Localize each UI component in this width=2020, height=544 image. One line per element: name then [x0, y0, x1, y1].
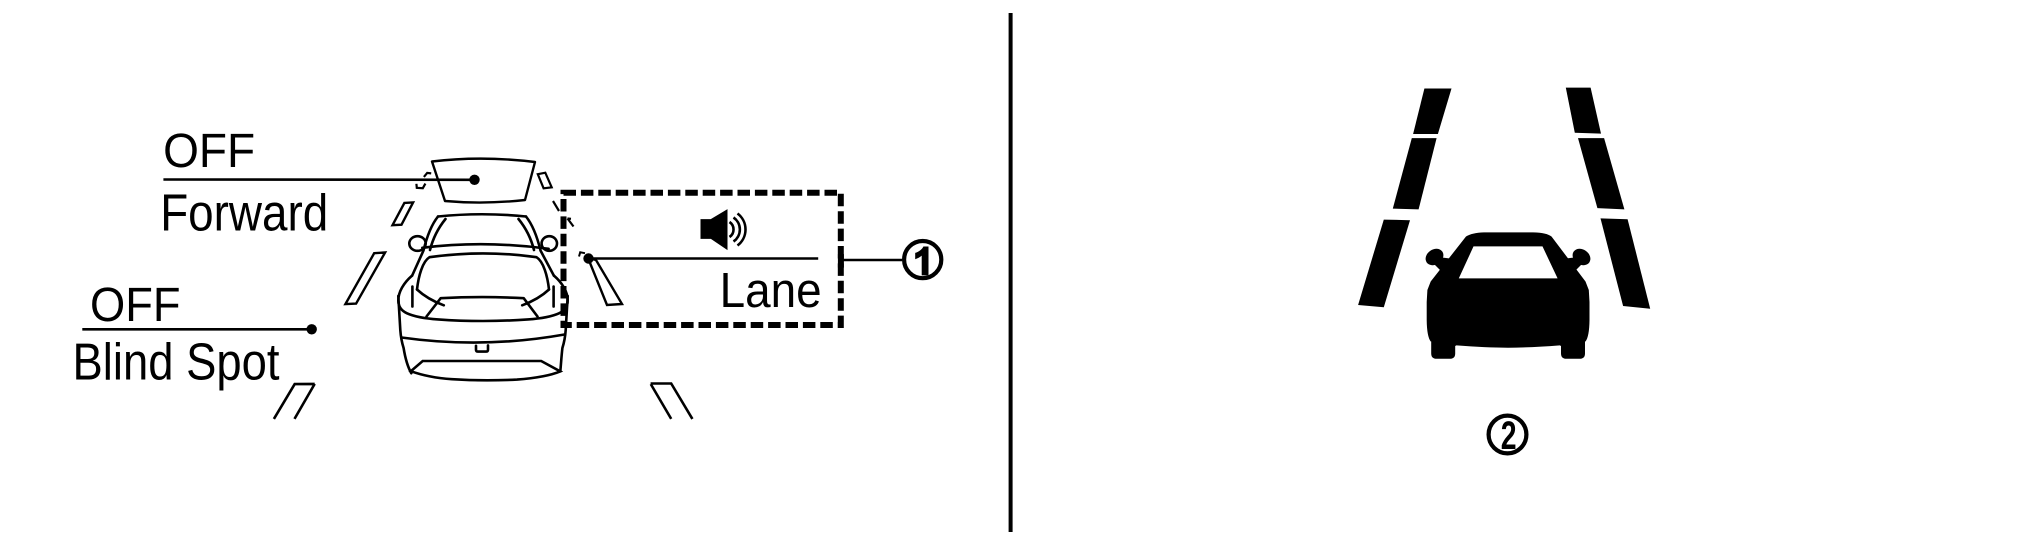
leader line to car side — [82, 328, 311, 331]
right headlight vertical tick — [552, 287, 555, 307]
leader line outside box to circle 1 — [842, 259, 902, 262]
dashed callout box — [564, 193, 841, 325]
lane marker inside box — [588, 258, 622, 305]
svg-text:OFF: OFF — [163, 125, 255, 178]
right panel: left lane dash 3 — [1358, 220, 1410, 308]
right body side — [560, 296, 567, 371]
svg-text:Lane: Lane — [720, 264, 822, 318]
leader line inside box — [589, 257, 819, 260]
speaker icon — [701, 210, 746, 249]
right headlight edge — [522, 290, 549, 306]
right panel: left lane dash 2 — [1393, 138, 1437, 209]
left headlight edge — [417, 290, 444, 306]
marker dot — [583, 253, 593, 263]
small tick lower-left of windshield panel — [416, 184, 425, 189]
car icon silhouette — [1422, 232, 1593, 358]
divider line — [1009, 13, 1013, 532]
license plate notch — [476, 345, 488, 351]
svg-text:OFF: OFF — [90, 279, 181, 332]
left A-pillar outer — [412, 217, 438, 276]
windshield glass bottom arc — [422, 244, 548, 249]
callout circle 2 — [1489, 416, 1527, 454]
callout circle 1 — [904, 241, 941, 278]
car icon right mirror — [1569, 245, 1593, 268]
lane mark L1 (upper left of car) — [393, 202, 414, 225]
lane mark L2 (mid left of car) — [345, 253, 385, 305]
mid body crease — [402, 335, 565, 343]
leader dot at car side — [307, 324, 317, 334]
cowl / hood arc with side descents — [417, 253, 549, 289]
left headlight vertical tick — [411, 287, 414, 307]
right panel: right lane dash 3 — [1601, 218, 1651, 308]
leader dot on windshield display — [469, 175, 479, 185]
speaker sound arcs — [730, 214, 746, 246]
lane mark L3 (bottom left) — [274, 384, 315, 419]
dash patch where leader crosses box border — [838, 254, 844, 268]
grille opening — [427, 297, 538, 316]
right A-pillar inner — [519, 219, 535, 250]
svg-text:Forward: Forward — [160, 185, 328, 243]
car line drawing — [398, 214, 567, 380]
tick near box left edge lower — [568, 219, 574, 227]
right panel: right lane dash 2 — [1578, 138, 1624, 209]
lower intake and bumper bottom — [411, 361, 560, 380]
roof top edge — [438, 214, 526, 216]
leader line to windshield display — [163, 178, 474, 181]
lane mark R3 (bottom right) — [651, 384, 693, 419]
right panel: left lane dash 1 — [1413, 89, 1451, 135]
tick near box left edge upper — [553, 201, 559, 211]
small tick upper-left of windshield panel — [424, 173, 431, 177]
left A-pillar inner — [430, 219, 446, 250]
right mirror — [542, 236, 557, 251]
svg-text:Blind Spot: Blind Spot — [73, 333, 280, 391]
left body side — [398, 296, 411, 373]
right panel: right lane dash 1 — [1566, 88, 1601, 134]
windshield display panel — [432, 159, 535, 203]
left mirror — [409, 236, 425, 251]
fender curves and bumper crease — [398, 276, 567, 322]
right A-pillar outer — [526, 217, 554, 276]
svg-text:2: 2 — [1501, 414, 1517, 458]
tiny tick above marker dot — [579, 252, 585, 256]
car icon left mirror — [1422, 245, 1446, 268]
lane mark right of windshield panel — [538, 173, 552, 189]
